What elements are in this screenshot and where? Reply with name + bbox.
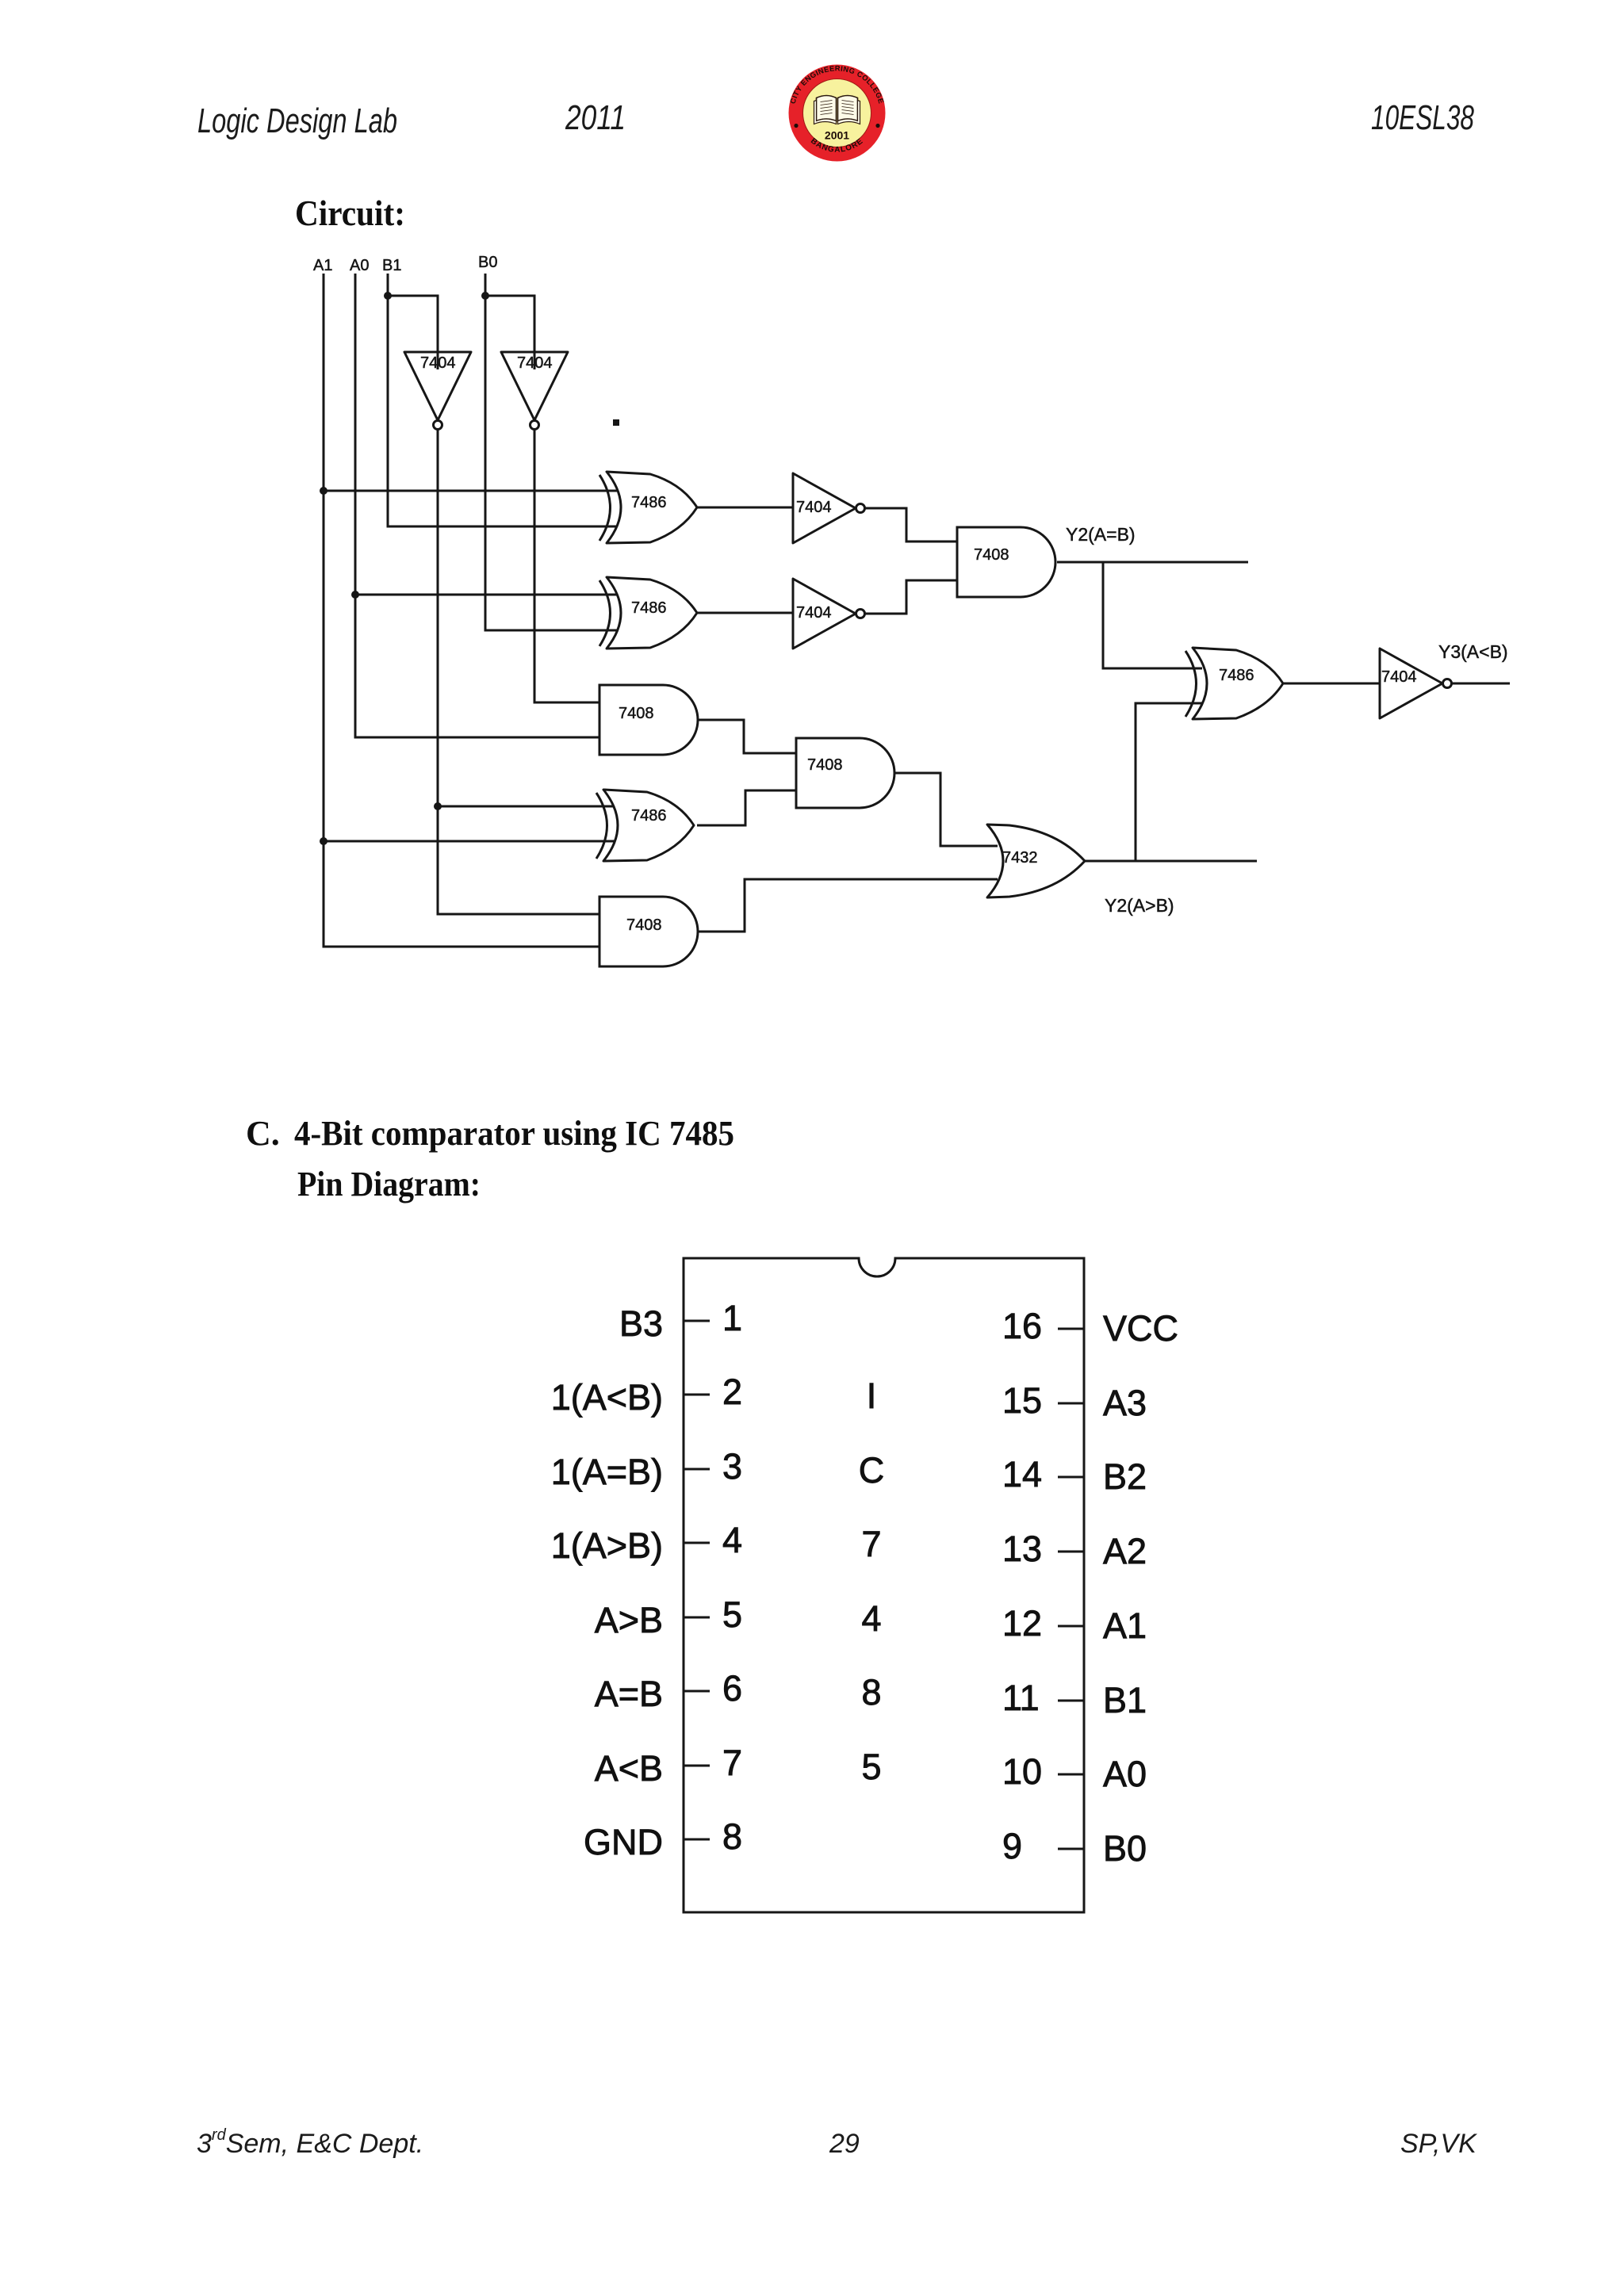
svg-text:7432: 7432	[1002, 849, 1038, 867]
svg-text:B0: B0	[1103, 1828, 1147, 1869]
svg-text:2: 2	[722, 1372, 742, 1412]
svg-text:I: I	[867, 1376, 877, 1416]
svg-text:6: 6	[722, 1668, 742, 1709]
svg-text:11: 11	[1002, 1678, 1040, 1718]
svg-text:B1: B1	[1103, 1680, 1147, 1720]
svg-text:3rdSem, E&C Dept.: 3rdSem, E&C Dept.	[197, 2126, 423, 2159]
svg-text:GND: GND	[584, 1822, 663, 1862]
svg-text:7486: 7486	[631, 494, 667, 511]
svg-text:7486: 7486	[631, 807, 667, 825]
svg-text:B1: B1	[382, 257, 401, 274]
svg-text:15: 15	[1002, 1380, 1042, 1421]
svg-text:5: 5	[722, 1594, 742, 1635]
svg-text:5: 5	[861, 1747, 881, 1787]
svg-text:10: 10	[1002, 1751, 1042, 1792]
svg-text:A=B: A=B	[595, 1674, 663, 1714]
svg-text:7408: 7408	[619, 705, 654, 722]
svg-text:Y2(A>B): Y2(A>B)	[1105, 895, 1174, 916]
svg-text:2011: 2011	[565, 98, 626, 137]
svg-text:7404: 7404	[420, 354, 456, 372]
svg-text:8: 8	[722, 1816, 742, 1857]
svg-text:A<B: A<B	[595, 1748, 663, 1789]
svg-text:Circuit:: Circuit:	[295, 193, 405, 233]
svg-text:1(A<B): 1(A<B)	[551, 1377, 663, 1418]
svg-text:12: 12	[1002, 1603, 1042, 1644]
svg-text:7404: 7404	[517, 354, 553, 372]
svg-text:A3: A3	[1103, 1383, 1147, 1423]
svg-text:A0: A0	[350, 257, 369, 274]
svg-text:3: 3	[722, 1446, 742, 1487]
svg-text:1(A>B): 1(A>B)	[551, 1525, 663, 1566]
svg-text:14: 14	[1002, 1454, 1042, 1494]
svg-text:VCC: VCC	[1103, 1308, 1178, 1349]
svg-text:7: 7	[861, 1524, 881, 1564]
svg-text:Y3(A<B): Y3(A<B)	[1438, 641, 1508, 662]
svg-text:SP,VK: SP,VK	[1400, 2129, 1477, 2159]
svg-text:Pin Diagram:: Pin Diagram:	[297, 1165, 481, 1203]
svg-text:1: 1	[722, 1298, 742, 1338]
svg-text:4-Bit comparator using IC 7485: 4-Bit comparator using IC 7485	[294, 1114, 734, 1153]
svg-text:4: 4	[861, 1598, 881, 1639]
svg-text:A0: A0	[1103, 1754, 1147, 1794]
svg-text:7408: 7408	[626, 916, 662, 934]
svg-text:7408: 7408	[807, 756, 843, 774]
svg-text:16: 16	[1002, 1306, 1042, 1346]
svg-text:7404: 7404	[1381, 668, 1417, 686]
svg-text:8: 8	[861, 1672, 881, 1712]
svg-text:7404: 7404	[796, 499, 832, 516]
svg-text:C: C	[859, 1450, 885, 1490]
svg-text:7: 7	[722, 1743, 742, 1783]
svg-text:13: 13	[1002, 1529, 1042, 1569]
svg-text:A1: A1	[313, 257, 332, 274]
svg-text:B0: B0	[478, 254, 497, 271]
svg-text:7486: 7486	[631, 599, 667, 617]
svg-text:B3: B3	[619, 1303, 663, 1344]
svg-text:2001: 2001	[825, 129, 849, 142]
svg-text:7408: 7408	[974, 546, 1009, 564]
svg-text:C.: C.	[246, 1114, 280, 1153]
svg-text:Logic Design Lab: Logic Design Lab	[197, 101, 397, 140]
svg-text:A>B: A>B	[595, 1600, 663, 1640]
svg-text:A1: A1	[1103, 1605, 1147, 1646]
svg-text:9: 9	[1002, 1826, 1022, 1866]
svg-text:4: 4	[722, 1520, 742, 1560]
svg-text:10ESL38: 10ESL38	[1371, 98, 1474, 137]
svg-text:7404: 7404	[796, 604, 832, 622]
svg-text:29: 29	[829, 2129, 860, 2159]
svg-text:A2: A2	[1103, 1531, 1147, 1571]
svg-text:1(A=B): 1(A=B)	[551, 1452, 663, 1492]
svg-text:7486: 7486	[1219, 667, 1254, 684]
svg-text:Y2(A=B): Y2(A=B)	[1066, 524, 1136, 545]
svg-text:B2: B2	[1103, 1456, 1147, 1497]
